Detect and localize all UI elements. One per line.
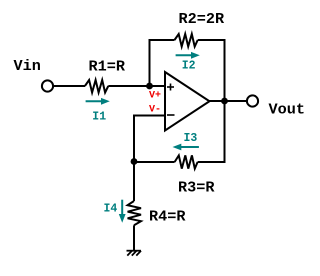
node A junction dot <box>146 83 153 90</box>
wire minus input vertical down to node C <box>133 115 135 163</box>
current arrow I4 <box>119 200 126 223</box>
svg-text:V-: V- <box>149 105 161 116</box>
wire top left to R2 <box>149 39 175 41</box>
svg-text:R2=2R: R2=2R <box>179 10 225 28</box>
node C junction dot <box>131 158 138 165</box>
current arrow I3 <box>173 144 199 151</box>
wire R2 to right vertical <box>198 39 226 41</box>
wire right vertical from R2 down to R3 <box>224 39 226 162</box>
svg-text:I3: I3 <box>184 132 198 145</box>
svg-text:R3=R: R3=R <box>178 179 215 197</box>
wire node C to R3 <box>134 161 175 163</box>
svg-text:Vout: Vout <box>269 101 305 119</box>
resistor R4 <box>128 201 141 225</box>
svg-text:R4=R: R4=R <box>149 208 186 226</box>
svg-text:Vin: Vin <box>14 57 41 75</box>
resistor R1 <box>85 80 108 93</box>
current arrow I2 <box>176 52 200 59</box>
wire Vin to R1 <box>53 85 85 87</box>
current arrow I1 <box>86 98 110 105</box>
node B output junction dot <box>221 98 228 105</box>
svg-text:V+: V+ <box>149 91 161 102</box>
wire R1 to op-amp plus input <box>108 85 165 87</box>
wire op-amp output <box>210 100 248 102</box>
wire R4 to ground <box>133 225 135 250</box>
svg-text:I2: I2 <box>182 60 196 73</box>
svg-text:I4: I4 <box>104 203 118 216</box>
resistor R3 <box>175 155 198 168</box>
svg-text:R1=R: R1=R <box>89 58 126 76</box>
op-amp U1 <box>165 72 210 131</box>
resistor R2 <box>175 34 198 47</box>
svg-text:I1: I1 <box>92 111 106 124</box>
node Vin terminal <box>42 80 53 91</box>
node Vout terminal <box>247 95 258 106</box>
wire node C down to R4 <box>133 162 135 202</box>
wire minus input horizontal <box>133 115 165 117</box>
wire R3 to right vertical <box>198 161 226 163</box>
wire node A up to R2 <box>149 39 151 87</box>
ground <box>127 251 142 256</box>
